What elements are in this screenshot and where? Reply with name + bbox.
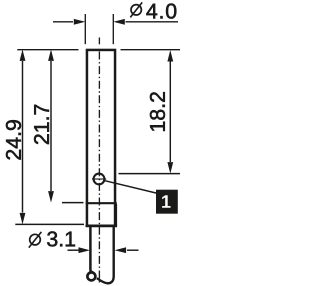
text 24.9 (rotated) [6, 120, 21, 159]
text 21.7 (rotated) [34, 105, 49, 144]
cable left edge [90, 227, 92, 272]
21.7 arrow up [48, 49, 54, 61]
text 18.2 (rotated) [150, 92, 165, 131]
21.7 arrow down [48, 191, 54, 203]
centerline (vertical axis, dash-dot) [98, 38, 100, 45]
dia 3.1 arrow left [68, 249, 79, 251]
24.9 bottom extension line [15, 223, 84, 225]
dia 4.0 extension line left [84, 14, 86, 44]
top extension line (left, 24.9/21.7 datum) [17, 49, 78, 51]
leader line to label 1 [104, 181, 158, 194]
cable break loop [87, 272, 95, 280]
dia 4.0 arrow left [74, 19, 86, 25]
18.2 arrow down [167, 162, 173, 174]
dia 3.1 arrow right [127, 249, 139, 251]
sensor body outline [87, 50, 115, 226]
text dia 3.1 [29, 232, 42, 248]
18.2 dimension line [169, 61, 171, 162]
24.9 arrow up [20, 49, 26, 61]
21.7 bottom extension line [62, 202, 84, 204]
21.7 dimension line [50, 61, 52, 191]
text dia 4.0 [130, 2, 142, 17]
18.2 bottom extension line [119, 173, 181, 175]
LED cross tick [92, 178, 106, 180]
24.9 arrow down [20, 213, 26, 225]
top extension line (right, 18.2 datum) [121, 49, 181, 51]
joint line (barrel bottom step) [86, 202, 117, 204]
dia 4.0 dimension line right tail [126, 21, 179, 23]
dia 4.0 extension line right [112, 14, 114, 44]
LED circle [94, 174, 105, 185]
cable right edge [97, 227, 114, 283]
dia 4.0 dimension line left tail [53, 21, 73, 23]
24.9 dimension line [22, 61, 24, 213]
dia 4.0 arrow right [113, 19, 125, 25]
label box 1 [156, 190, 177, 213]
18.2 arrow up [167, 50, 173, 62]
